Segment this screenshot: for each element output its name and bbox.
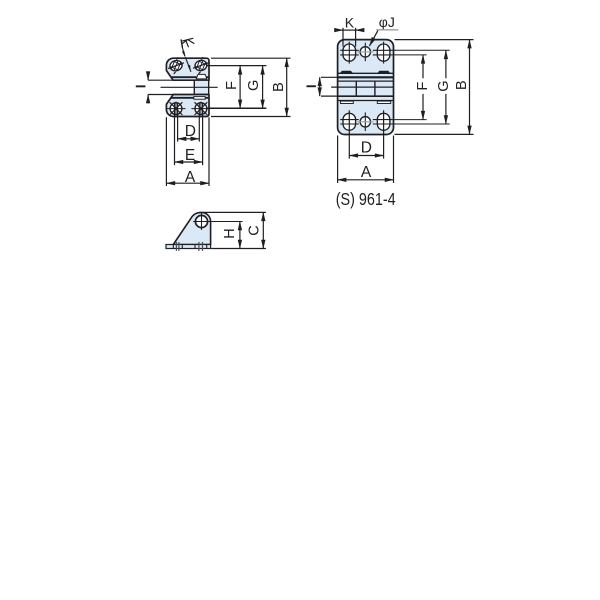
svg-text:F: F (224, 81, 240, 90)
dimension I (fig1 plate gap) (136, 71, 173, 103)
small hole top center line (gray) (357, 51, 373, 53)
small hole bottom center line (gray) (357, 121, 373, 123)
slot hole bottom-right (377, 113, 390, 130)
lower leaf hole left (cross hole) (167, 102, 186, 116)
thick fold edge (338, 76, 394, 78)
lower leaf notch right (377, 101, 390, 103)
dimension F (fig2) (415, 55, 431, 120)
slot hole top-right (377, 44, 390, 61)
dimension C (fig3) (204, 212, 266, 248)
svg-text:(S) 961-4: (S) 961-4 (336, 189, 396, 209)
svg-text:B: B (454, 80, 470, 90)
small hole bottom (360, 117, 370, 127)
svg-text:φJ: φJ (379, 14, 395, 30)
svg-text:G: G (246, 80, 262, 91)
lower leaf notch (194, 97, 205, 100)
weld bead left (black trapezoid) (340, 71, 353, 74)
lower leaf plate (top view) (166, 95, 209, 117)
barrel crosshair (193, 221, 242, 223)
knuckle divider left (355, 81, 357, 96)
dimension F (fig1) (206, 66, 266, 109)
knuckle top line (338, 80, 394, 82)
bracket body (side view) (173, 212, 210, 244)
pin center line (161, 86, 218, 88)
slot hole bottom-left (343, 113, 356, 130)
hidden screw hole lines (176, 242, 202, 251)
upper leaf notch (196, 74, 207, 79)
dimension B (fig2) (395, 40, 474, 135)
svg-text:C: C (246, 225, 262, 235)
leaf edge line top (338, 72, 394, 74)
lower leaf hole right (cross hole) (191, 102, 210, 116)
dimension H (fig3) (222, 222, 240, 249)
knuckle barrel (top view) (194, 80, 208, 94)
upper leaf hole right (hatched slot) (191, 56, 211, 75)
svg-text:E: E (185, 147, 195, 164)
upper leaf fold line (171, 76, 209, 78)
dimension K (fig2) (334, 14, 364, 46)
crosshairs top row (340, 42, 391, 64)
svg-text:K: K (345, 14, 355, 30)
svg-text:B: B (271, 82, 287, 92)
svg-text:D: D (361, 140, 372, 157)
dimension B (fig1) (211, 58, 291, 116)
svg-text:A: A (361, 164, 372, 181)
dimension I (fig2 knuckle) (307, 77, 338, 96)
pin axis line (331, 86, 393, 88)
upper leaf hole left (hatched slot) (166, 56, 186, 75)
F/G extension lines (fig2 right) (392, 50, 450, 124)
dimension D (fig2) (349, 110, 383, 158)
label phi-J with leader (369, 14, 398, 46)
svg-text:D: D (185, 123, 196, 140)
dimension G (fig2) (436, 50, 452, 124)
svg-text:G: G (436, 80, 452, 91)
hinge body (front view) (338, 40, 394, 135)
base plate strip (166, 245, 211, 249)
lower leaf fold line (171, 97, 209, 99)
dimension A (fig2) (338, 136, 394, 184)
upper leaf plate (top view) (166, 58, 209, 80)
svg-text:H: H (222, 228, 238, 238)
barrel circle (side view) (195, 215, 207, 227)
dimension K (fig1, angled) (181, 38, 194, 72)
dimension D (fig1) (178, 103, 200, 142)
strip divider lines (173, 245, 206, 249)
crosshairs bottom row (340, 112, 391, 131)
dimension E (fig1) (175, 103, 203, 165)
knuckle bottom line (338, 95, 394, 97)
dimension G (fig1) (246, 66, 262, 109)
svg-text:A: A (185, 169, 196, 186)
lower leaf notch left (341, 101, 354, 103)
dimension A (fig1) (166, 117, 209, 186)
knuckle divider right (374, 81, 376, 96)
small hole top (360, 47, 370, 57)
weld bead right (black trapezoid) (377, 71, 390, 74)
lower leaf top line (338, 100, 394, 102)
svg-text:F: F (415, 82, 431, 91)
slot hole top-left (343, 44, 356, 61)
